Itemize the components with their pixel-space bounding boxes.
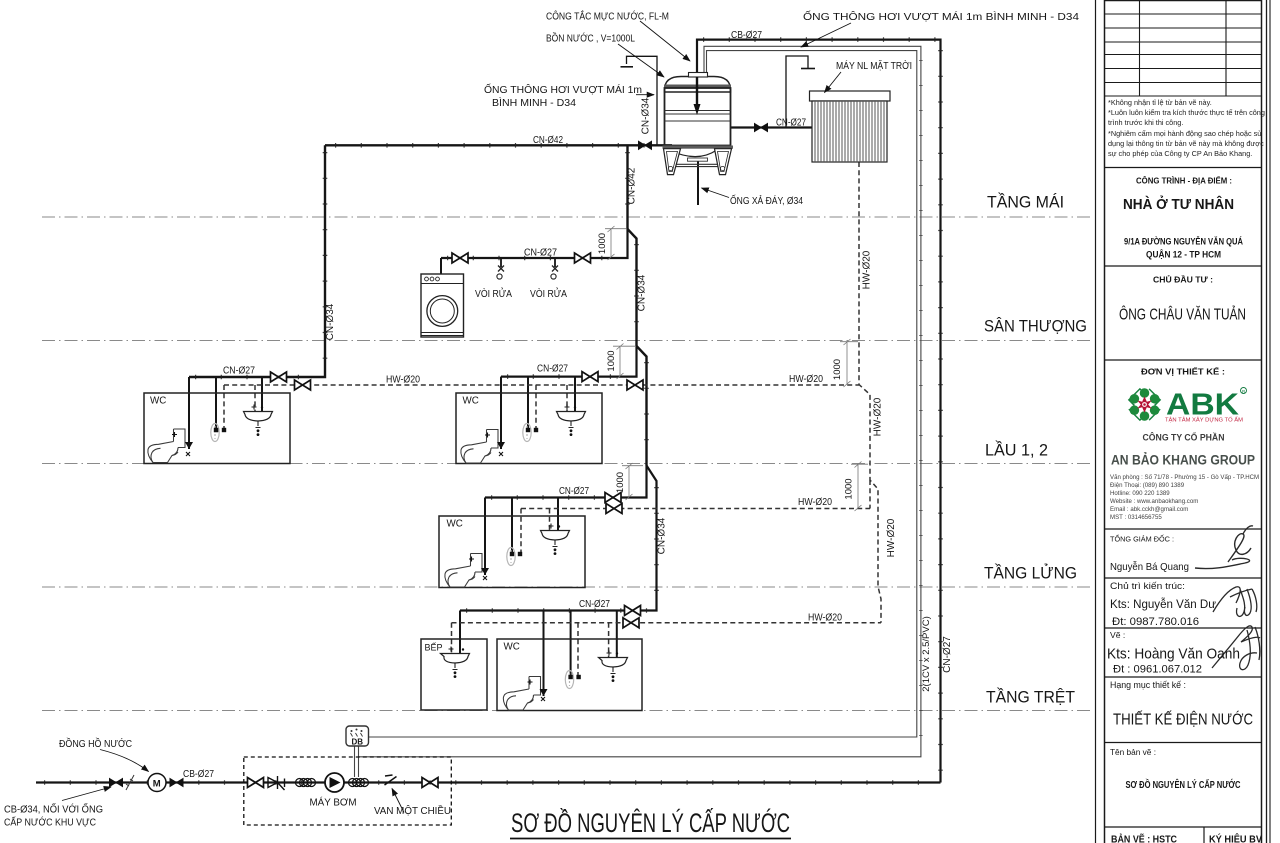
drop lavabo WC2 <box>574 377 576 411</box>
pipe tank to solar heater CN-027 <box>731 126 812 128</box>
toilet WC4 <box>503 677 540 711</box>
faucet VOI RUA 2 <box>551 266 558 280</box>
pipe HW branch TANG TRET <box>452 622 882 624</box>
pipe branch stub SAN THUONG <box>441 229 628 258</box>
drop shower WC3 <box>511 498 513 555</box>
svg-text:HW-Ø20: HW-Ø20 <box>886 518 897 557</box>
valve TANG LUNG branch <box>605 493 621 503</box>
section divider below owner <box>1105 359 1262 361</box>
floor line TANG LUNG <box>42 586 1094 588</box>
supply cross toilet WC4 <box>528 680 546 702</box>
floor line TANG MAI <box>42 216 1094 218</box>
pipe left riser CN-034 with branch to WC1 <box>189 145 325 377</box>
pipe branch stub LAU WC2 <box>501 346 637 377</box>
section divider above bottom row <box>1105 826 1262 828</box>
pipe faucet stub 2 <box>554 258 556 267</box>
pipe heater vent <box>786 56 808 128</box>
drop shower WC4 <box>570 611 572 678</box>
svg-text:TẦNG TRỆT: TẦNG TRỆT <box>986 688 1075 707</box>
svg-text:DB: DB <box>352 738 364 747</box>
valve on heater line CN-027 <box>755 124 768 132</box>
pipe HW branch LAU <box>224 384 859 386</box>
svg-text:MÁY NL MẶT TRỜI: MÁY NL MẶT TRỜI <box>836 59 912 72</box>
svg-text:1000: 1000 <box>597 233 608 254</box>
pipe break symbol <box>126 775 134 790</box>
room box WC1 <box>144 393 290 464</box>
WC room 1 (LAU 1,2 left) <box>144 393 290 464</box>
pipe faucet stub 1 <box>500 258 502 267</box>
leader ONG XA DAY <box>702 188 730 198</box>
shower WC3 <box>507 548 515 566</box>
tank center notch <box>688 158 708 161</box>
svg-text:WC: WC <box>463 396 479 407</box>
pipe tank bottom drain <box>697 159 699 205</box>
svg-text:1000: 1000 <box>606 350 617 371</box>
room box WC4 <box>497 639 642 711</box>
svg-text:CN-Ø27: CN-Ø27 <box>537 364 568 375</box>
section divider below item <box>1105 742 1262 744</box>
drop kitchen sink <box>459 611 461 655</box>
conduit tick marks <box>919 60 922 750</box>
faucet VOI RUA 1 <box>497 258 504 279</box>
leader vent top right <box>801 23 851 47</box>
floor labels <box>984 193 1087 707</box>
svg-text:CN-Ø27: CN-Ø27 <box>559 486 589 497</box>
WC room 3 (TANG LUNG) <box>439 516 585 588</box>
tank stand crossbar <box>667 164 722 166</box>
tick marks on main pipes <box>44 40 941 783</box>
drop shower WC2 <box>527 377 529 430</box>
svg-text:WC: WC <box>504 642 520 653</box>
pipe CN-042 main horizontal from riser to tank <box>325 144 672 146</box>
svg-text:M: M <box>153 779 161 790</box>
tank float switch probe <box>696 77 698 108</box>
svg-text:CN-Ø27: CN-Ø27 <box>579 599 610 610</box>
section divider below architect <box>1105 627 1262 629</box>
svg-text:CN-Ø34: CN-Ø34 <box>637 274 648 311</box>
dim 1000 LAU HW <box>840 339 858 387</box>
pipe CB-027 pump riser to tank <box>697 40 941 783</box>
shower WC1 <box>211 424 219 442</box>
valve LAU WC2 branch <box>582 372 598 382</box>
svg-text:HW-Ø20: HW-Ø20 <box>798 497 832 508</box>
shower WC4 <box>565 671 573 689</box>
revision table rows <box>1105 14 1262 96</box>
rotated dimension labels 1000 <box>597 233 855 500</box>
pipe riser jog 1 <box>628 229 637 346</box>
ABK logo <box>1129 387 1247 424</box>
logo flower icon <box>1129 388 1160 421</box>
supply cross toilet WC3 <box>469 557 487 581</box>
valve TANG TRET branch <box>625 606 641 616</box>
conduit wire A to float switch <box>359 46 921 757</box>
room box WC3 <box>439 516 585 588</box>
pump MAY BOM <box>325 773 344 792</box>
supply cross toilet WC1 <box>172 432 190 456</box>
kitchen room BEP <box>421 639 487 710</box>
pipe HW branch TANG LUNG <box>521 508 870 510</box>
signature director <box>1195 526 1253 569</box>
leader DONG HO NUOC <box>100 750 149 772</box>
shower feet WC3 <box>510 552 514 556</box>
shower WC2 <box>523 424 531 442</box>
solar water heater MAY NL MAT TROI <box>810 91 891 162</box>
svg-text:HW-Ø20: HW-Ø20 <box>862 250 873 289</box>
section divider below notes <box>1105 167 1262 169</box>
svg-text:BẾP: BẾP <box>425 643 443 653</box>
floor line TANG TRET <box>42 710 1094 712</box>
dim 1000 LAU CN <box>613 344 635 380</box>
tank cap <box>689 73 708 78</box>
svg-text:HW-Ø20: HW-Ø20 <box>789 374 823 385</box>
pipe HW riser from solar heater <box>859 162 881 623</box>
heater header bar <box>810 91 891 101</box>
rotated pipe labels <box>325 97 953 692</box>
svg-text:TẬN TÂM XÂY DỰNG TỔ ẤM: TẬN TÂM XÂY DỰNG TỔ ẤM <box>1165 417 1244 424</box>
valve TANG TRET HW branch <box>623 618 639 628</box>
pipe riser jog 2 <box>637 346 647 466</box>
room box WC2 <box>456 393 602 464</box>
section divider below address <box>1105 265 1262 267</box>
shower feet WC2 <box>526 428 530 432</box>
svg-text:CB-Ø27: CB-Ø27 <box>183 769 214 780</box>
pipe pump suction/discharge line <box>36 781 941 783</box>
svg-text:BỒN NƯỚC , V=1000L: BỒN NƯỚC , V=1000L <box>546 32 635 45</box>
lavabo WC1 <box>244 405 273 437</box>
svg-text:HW-Ø20: HW-Ø20 <box>386 375 420 386</box>
sheet frame right double line <box>1266 0 1268 843</box>
valve city inlet <box>110 779 123 787</box>
bottom row divider <box>1203 827 1205 843</box>
svg-text:LẦU 1, 2: LẦU 1, 2 <box>985 441 1048 460</box>
drop hot lavabo WC4 <box>608 623 610 657</box>
svg-text:2(1CV x 2.5/PVC): 2(1CV x 2.5/PVC) <box>921 616 932 692</box>
pipe branch stub TANG LUNG <box>485 466 647 498</box>
valve LAU HW branch left <box>295 380 311 390</box>
water tank BON NUOC V=1000L <box>663 73 734 175</box>
tank body <box>665 88 731 146</box>
tank bottom band <box>663 146 734 149</box>
vent cap <box>621 66 634 68</box>
valve pump suction <box>248 778 264 788</box>
valve LAU HW branch right <box>627 380 643 390</box>
tank right leg <box>715 149 732 175</box>
drop hot shower WC3 <box>520 509 522 555</box>
tank dome <box>665 77 731 93</box>
svg-text:CN-Ø34: CN-Ø34 <box>641 97 652 134</box>
valve pump discharge <box>422 778 438 788</box>
tank left leg <box>664 149 681 175</box>
dim 1000 TANG LUNG HW <box>851 462 868 512</box>
tank weld lines <box>665 111 731 122</box>
company contact info <box>1110 474 1259 522</box>
svg-text:MÁY BƠM: MÁY BƠM <box>310 796 357 809</box>
vent cap heater <box>801 68 815 70</box>
leader VAN MOT CHIEU <box>392 789 404 813</box>
drop hot shower WC4 <box>577 623 579 677</box>
fixture supply drops (cold) <box>189 377 617 696</box>
tank top band <box>664 85 731 89</box>
drop hot kitchen sink <box>451 623 453 654</box>
svg-text:ABK: ABK <box>1166 387 1240 422</box>
svg-text:CN-Ø27: CN-Ø27 <box>942 636 953 673</box>
drop hot lavabo WC3 <box>549 509 551 531</box>
leader FL-M float switch <box>640 21 690 61</box>
pipe HW stub TANG LUNG <box>869 480 871 509</box>
svg-text:BÌNH MINH - D34: BÌNH MINH - D34 <box>492 96 576 109</box>
notes paragraph <box>1108 98 1265 159</box>
shower feet WC4 <box>568 675 572 679</box>
strainer symbol <box>268 776 285 790</box>
flexible connector 2 (motor coupling) <box>349 779 369 787</box>
leader CB-034 city supply <box>62 787 111 801</box>
WC room 4 (TANG TRET) <box>497 639 642 711</box>
flexible connector 1 <box>296 779 316 787</box>
svg-text:ỐNG THÔNG HƠI VƯỢT MÁI 1m: ỐNG THÔNG HƠI VƯỢT MÁI 1m <box>484 82 642 96</box>
drop toilet WC1 <box>188 377 190 449</box>
valve TANG LUNG HW branch <box>606 504 622 514</box>
pipe tank vent <box>627 56 658 145</box>
svg-text:WC: WC <box>150 396 166 407</box>
wire DB to pump motor 2 <box>358 746 360 777</box>
pipe main riser upper CN-042 <box>626 145 628 229</box>
wire DB to pump motor <box>354 746 356 777</box>
kitchen sink <box>441 647 470 678</box>
water meter DONG HO NUOC <box>148 774 166 792</box>
svg-text:ỐNG XẢ ĐÁY, Ø34: ỐNG XẢ ĐÁY, Ø34 <box>730 193 803 207</box>
leader BON NUOC <box>618 44 664 77</box>
drop lavabo WC1 <box>261 377 263 411</box>
svg-text:CN-Ø27: CN-Ø27 <box>223 366 255 377</box>
drop toilet WC3 <box>484 498 486 576</box>
sheet frame inner line <box>1095 0 1097 843</box>
conduit wire B to float switch <box>368 51 917 737</box>
lavabo WC3 <box>541 524 570 555</box>
dim 1000 TANG LUNG CN <box>622 463 643 500</box>
room box BEP <box>421 639 487 710</box>
lavabo WC2 <box>557 405 586 437</box>
svg-text:SÂN THƯỢNG: SÂN THƯỢNG <box>984 317 1087 336</box>
toilet WC2 <box>461 430 498 464</box>
svg-text:1000: 1000 <box>844 478 855 499</box>
svg-text:ỐNG THÔNG HƠI VƯỢT MÁI 1m BÌNH: ỐNG THÔNG HƠI VƯỢT MÁI 1m BÌNH MINH - D3… <box>803 9 1079 23</box>
leader vent left <box>636 94 654 96</box>
drop hot lavabo WC2 <box>566 385 568 411</box>
arrow end toilet drop WC4 <box>540 689 548 696</box>
signature architect <box>1213 587 1257 617</box>
revision table columns <box>1140 1 1227 97</box>
heater tube body <box>812 101 887 162</box>
svg-text:CẤP NƯỚC KHU VỰC: CẤP NƯỚC KHU VỰC <box>4 816 96 829</box>
svg-text:CN-Ø27: CN-Ø27 <box>524 248 557 259</box>
arrow end toilet drop WC3 <box>481 568 489 575</box>
drop toilet WC4 <box>543 611 545 697</box>
svg-text:SƠ ĐỒ NGUYÊN LÝ CẤP NƯỚC: SƠ ĐỒ NGUYÊN LÝ CẤP NƯỚC <box>511 807 790 838</box>
dim 1000 SAN THUONG <box>605 226 626 260</box>
valve after meter <box>170 779 183 787</box>
drop shower WC1 <box>215 377 217 430</box>
signature drafter <box>1212 626 1260 670</box>
section divider below drafter <box>1105 676 1262 678</box>
svg-text:CÔNG TẮC MỰC NƯỚC, FL-M: CÔNG TẮC MỰC NƯỚC, FL-M <box>546 10 669 23</box>
svg-text:CB-Ø27: CB-Ø27 <box>731 30 762 41</box>
WC room 2 (LAU 1,2 right) <box>456 393 602 464</box>
washing machine <box>421 274 464 337</box>
svg-text:VÒI RỬA: VÒI RỬA <box>475 287 512 300</box>
drawing title <box>510 807 791 839</box>
svg-text:CN-Ø27: CN-Ø27 <box>776 118 806 129</box>
toilet WC1 <box>148 429 185 463</box>
title block outer box <box>1105 1 1262 843</box>
drop hot shower WC1 <box>223 385 225 430</box>
lavabo WC4 <box>599 651 628 682</box>
svg-text:1000: 1000 <box>615 472 626 493</box>
pump box (dashed enclosure) <box>244 757 451 825</box>
shower feet WC1 <box>214 428 218 432</box>
arrow end toilet drop WC1 <box>185 442 193 449</box>
floor line SAN THUONG <box>42 340 1094 342</box>
svg-text:CN-Ø42: CN-Ø42 <box>533 135 563 146</box>
supply cross toilet WC2 <box>485 433 503 457</box>
tank bottom curve <box>669 150 716 157</box>
floor line LAU 1,2 <box>42 463 1094 465</box>
section divider below director <box>1105 577 1262 579</box>
svg-text:TẦNG MÁI: TẦNG MÁI <box>987 193 1064 212</box>
valve on CN-042 main at tank <box>639 141 652 149</box>
pipe riser jog 3 and ground branch <box>460 466 657 611</box>
svg-text:CN-Ø34: CN-Ø34 <box>325 303 336 340</box>
svg-text:CB-Ø34, NỐI VỚI ỐNG: CB-Ø34, NỐI VỚI ỐNG <box>4 802 103 816</box>
shower endpoint squares cold <box>214 428 218 432</box>
drop hot lavabo WC1 <box>254 385 256 411</box>
drop lavabo WC3 <box>557 498 559 531</box>
svg-text:1000: 1000 <box>832 359 843 380</box>
svg-text:CN-Ø34: CN-Ø34 <box>657 517 668 554</box>
pipe washing machine stub <box>440 258 442 274</box>
svg-text:HW-Ø20: HW-Ø20 <box>808 613 842 624</box>
drop hot shower WC2 <box>535 385 537 430</box>
svg-text:HW-Ø20: HW-Ø20 <box>873 397 884 436</box>
arrow end toilet drop WC2 <box>497 442 505 449</box>
drop lavabo WC4 <box>616 611 618 658</box>
valve LAU WC1 branch <box>271 372 287 382</box>
drop toilet WC2 <box>500 377 502 449</box>
valve SAN THUONG branch right <box>575 253 591 263</box>
toilet WC3 <box>445 554 482 588</box>
svg-text:WC: WC <box>447 519 463 530</box>
svg-text:CN-Ø42: CN-Ø42 <box>627 167 638 204</box>
section divider below company <box>1105 528 1262 530</box>
heater tubes hatch <box>815 101 884 162</box>
electrical panel DB <box>346 726 369 747</box>
svg-text:TẦNG LỬNG: TẦNG LỬNG <box>984 564 1077 583</box>
leader MAY NL MAT TROI <box>825 72 842 93</box>
svg-text:VAN MỘT CHIỀU: VAN MỘT CHIỀU <box>374 804 451 817</box>
check valve VAN MOT CHIEU <box>385 775 397 785</box>
svg-text:ĐỒNG HỒ NƯỚC: ĐỒNG HỒ NƯỚC <box>59 737 132 750</box>
valve SAN THUONG branch left <box>452 253 468 263</box>
svg-text:VÒI RỬA: VÒI RỬA <box>530 287 567 300</box>
